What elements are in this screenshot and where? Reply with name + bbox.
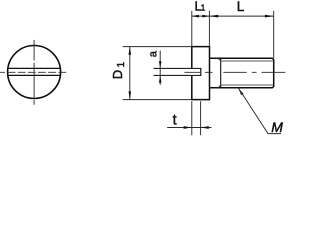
- front view: horizontal centerline: [0, 71, 66, 73]
- dim L: dimension line: [209, 15, 273, 17]
- label a: [147, 50, 159, 57]
- side view: slot bottom line + a extension: [154, 74, 201, 76]
- front view: head circle: [8, 46, 61, 99]
- dim t: dimension line: [167, 127, 211, 129]
- dim a: arrow down to slot top: [159, 61, 162, 68]
- dim D1: arrow up: [129, 47, 132, 55]
- svg-text:M: M: [271, 119, 283, 135]
- dim L1: arrow right: [202, 15, 209, 18]
- dim L1: left extension line: [191, 11, 193, 47]
- side view: thread start line: [220, 58, 222, 88]
- side view: screw centerline: [184, 71, 285, 73]
- dim t: arrow right-pointing: [184, 126, 192, 129]
- dim L1: dimension line: [192, 15, 210, 17]
- leader M: arrow: [238, 88, 243, 95]
- dim t: left extension line: [191, 101, 193, 135]
- dim D1: bottom extension line: [123, 99, 192, 101]
- front view: vertical centerline: [33, 40, 35, 105]
- dim L: right extension line: [273, 11, 275, 58]
- svg-text:L1: L1: [195, 0, 206, 14]
- svg-text:a: a: [147, 50, 159, 57]
- svg-text:t: t: [173, 112, 177, 128]
- dim t: right extension line: [200, 101, 202, 135]
- side view: thread lead-in diagonal bottom: [218, 85, 221, 87]
- dim t: arrow left-pointing: [201, 126, 209, 129]
- dim D1: arrow down: [129, 91, 132, 99]
- side view: thread lead-in diagonal top: [218, 58, 221, 60]
- front view: slot top chord: [8, 67, 60, 69]
- svg-text:L: L: [237, 0, 245, 14]
- side view: thread minor dia bottom: [221, 84, 273, 86]
- dim a: arrow up to slot bottom: [159, 75, 162, 82]
- dim D1: dimension line: [129, 47, 131, 100]
- dim a: dimension line: [159, 51, 161, 85]
- label D1: [110, 61, 127, 79]
- side view: head outline (left face interrupted by slot): [192, 47, 210, 100]
- side view: slot top line + a extension: [154, 67, 201, 69]
- dim L1: arrow left: [192, 15, 199, 18]
- dim L: arrow left: [209, 15, 218, 18]
- dim L: arrow right: [265, 15, 274, 18]
- dim D1: top extension line: [123, 46, 192, 48]
- front view: slot bottom chord: [8, 74, 61, 76]
- side view: slot depth line: [200, 68, 202, 76]
- side view: shaft outline with chamfered tip: [210, 58, 274, 88]
- side view: thread minor dia top: [221, 60, 273, 62]
- dim L1: right extension line: [208, 11, 210, 47]
- leader M: line: [239, 88, 281, 133]
